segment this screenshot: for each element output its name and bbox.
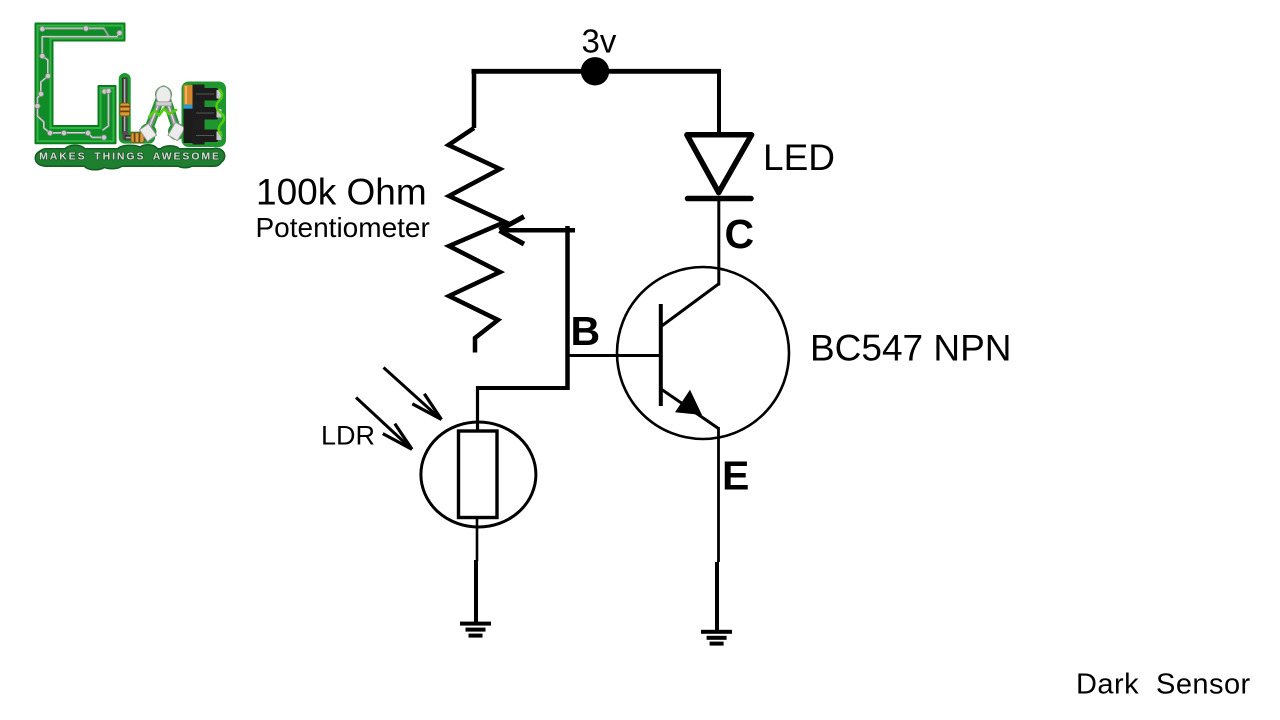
svg-text:Potentiometer: Potentiometer xyxy=(256,212,430,243)
svg-text:Dark Sensor: Dark Sensor xyxy=(1076,669,1251,701)
svg-text:LED: LED xyxy=(763,137,835,178)
svg-text:LDR: LDR xyxy=(321,421,375,451)
svg-text:B: B xyxy=(571,308,601,354)
svg-text:BC547 NPN: BC547 NPN xyxy=(810,328,1012,369)
svg-text:C: C xyxy=(725,211,755,257)
svg-text:MAKES THINGS AWESOME: MAKES THINGS AWESOME xyxy=(39,150,221,162)
svg-text:E: E xyxy=(722,453,749,499)
svg-text:100k Ohm: 100k Ohm xyxy=(256,172,427,213)
svg-text:3v: 3v xyxy=(582,23,617,60)
